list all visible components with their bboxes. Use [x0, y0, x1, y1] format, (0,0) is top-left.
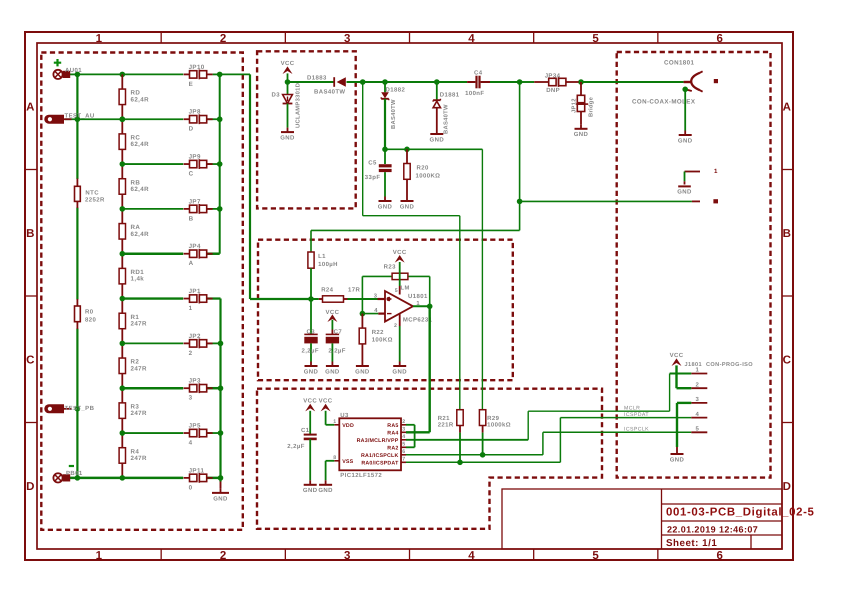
plus mark	[54, 59, 61, 66]
svg-text:GND: GND	[392, 368, 407, 375]
wire MCLR net	[406, 374, 670, 440]
svg-text:33pF: 33pF	[365, 174, 381, 181]
group box connectors	[617, 52, 771, 478]
diode D1881 BAS40TW	[430, 82, 460, 143]
svg-text:JP1: JP1	[189, 288, 201, 295]
jumper JP9 pin C	[184, 153, 213, 177]
svg-text:17R: 17R	[348, 287, 360, 294]
inductor L1 100uH	[308, 252, 338, 299]
IC U3 PIC12LF1572	[333, 412, 406, 479]
wire row 10	[70, 475, 221, 481]
svg-text:1: 1	[189, 305, 193, 312]
svg-text:GND: GND	[280, 135, 295, 142]
svg-text:JP4: JP4	[189, 243, 201, 250]
capacitor C7 2,2uF	[325, 329, 346, 376]
wire AU plus rail	[70, 72, 250, 78]
svg-text:1: 1	[714, 168, 718, 175]
svg-text:A: A	[26, 101, 35, 113]
svg-text:D1882: D1882	[386, 87, 406, 94]
group box sensor inputs	[41, 53, 243, 530]
diode D3 UCLAMP3301D	[272, 82, 302, 142]
svg-text:62,4R: 62,4R	[131, 96, 150, 103]
resistor R2 247R	[119, 358, 147, 374]
svg-text:D: D	[26, 481, 35, 493]
svg-text:62,4R: 62,4R	[131, 186, 150, 193]
svg-text:GND: GND	[677, 188, 692, 195]
svg-text:PB01: PB01	[66, 470, 83, 477]
svg-text:4: 4	[189, 440, 193, 447]
test point TEST_PB	[44, 404, 94, 413]
svg-text:Bridge: Bridge	[588, 96, 595, 117]
capacitor C3 2,2uF	[302, 299, 319, 375]
svg-text:5: 5	[592, 33, 599, 45]
resistor R21 221R	[438, 410, 463, 463]
resistor RD1 1,4k	[119, 268, 144, 284]
svg-text:C7: C7	[334, 329, 343, 336]
svg-text:D1881: D1881	[440, 91, 460, 98]
resistor RA 62,4R	[119, 224, 149, 240]
svg-text:221R: 221R	[438, 421, 454, 428]
wire RA5 RA2 tie	[406, 425, 415, 448]
svg-text:VCC: VCC	[319, 398, 333, 405]
wire row 6	[122, 297, 220, 299]
svg-text:2: 2	[402, 419, 405, 425]
svg-text:A: A	[783, 101, 792, 113]
connector J1801 CON-PROG-ISO	[685, 362, 754, 433]
svg-text:4: 4	[374, 308, 378, 314]
svg-text:ICSPCLK: ICSPCLK	[624, 427, 649, 433]
svg-text:D3: D3	[272, 92, 281, 99]
group box input protection	[257, 51, 356, 208]
svg-text:VCC: VCC	[670, 352, 684, 359]
svg-text:4: 4	[696, 411, 700, 418]
svg-text:7: 7	[402, 457, 405, 463]
svg-text:RA4: RA4	[387, 430, 398, 436]
svg-text:5: 5	[696, 426, 700, 433]
supply VCC opamp	[393, 249, 407, 295]
svg-text:MCLR: MCLR	[624, 406, 640, 412]
svg-text:VCC: VCC	[393, 249, 407, 256]
svg-text:GND: GND	[670, 456, 685, 463]
svg-text:4: 4	[468, 550, 475, 562]
svg-text:RA1/ICSPCLK: RA1/ICSPCLK	[361, 453, 399, 459]
svg-text:2: 2	[220, 550, 227, 562]
svg-text:62,4R: 62,4R	[131, 141, 150, 148]
resistor R4 247R	[119, 448, 147, 464]
svg-text:1000KΩ: 1000KΩ	[416, 172, 441, 179]
wire row 4	[122, 208, 219, 210]
svg-text:D1883: D1883	[307, 74, 327, 81]
svg-text:2: 2	[220, 33, 227, 45]
wire L1 feed	[311, 82, 522, 252]
jumper JP7 pin B	[184, 198, 213, 222]
resistor R23	[384, 264, 408, 280]
jumper JP3 pin 3	[184, 378, 213, 402]
svg-text:PIC12LF1572: PIC12LF1572	[340, 472, 382, 479]
svg-text:D: D	[783, 481, 792, 493]
svg-text:NTC: NTC	[85, 190, 99, 197]
svg-text:1: 1	[96, 550, 103, 562]
wire row 8	[122, 387, 220, 390]
svg-text:UCLAMP3301D: UCLAMP3301D	[295, 83, 302, 128]
svg-text:2,2µF: 2,2µF	[302, 347, 319, 354]
svg-text:R29: R29	[487, 415, 499, 422]
jumper JP4 pin A	[184, 243, 213, 267]
title block	[502, 489, 815, 549]
coax shield ground	[678, 87, 693, 145]
wire main rail	[285, 79, 684, 85]
svg-text:VCC: VCC	[303, 398, 317, 405]
svg-text:247R: 247R	[131, 321, 148, 328]
svg-text:22.01.2019 12:46:07: 22.01.2019 12:46:07	[667, 525, 758, 535]
svg-text:2: 2	[696, 381, 700, 388]
svg-text:MCP6231: MCP6231	[403, 316, 433, 323]
op-amp U1801 MCP6231	[374, 286, 433, 324]
svg-text:GND: GND	[378, 203, 393, 210]
resistor RC 62,4R	[119, 134, 149, 150]
wire opamp output	[413, 304, 433, 433]
svg-text:A: A	[189, 260, 194, 267]
svg-text:R22: R22	[372, 329, 384, 336]
wire feedback	[360, 276, 430, 316]
connector AU01	[53, 67, 82, 79]
jumper JP1 pin 1	[184, 288, 213, 312]
svg-text:GND: GND	[304, 368, 319, 375]
svg-text:C3: C3	[307, 329, 316, 336]
jumper JP8 pin D	[184, 109, 213, 133]
svg-text:247R: 247R	[131, 365, 148, 372]
svg-text:VSS: VSS	[342, 459, 353, 465]
wire RA4 from opamp	[406, 431, 430, 433]
svg-text:B: B	[189, 215, 194, 222]
svg-text:62,4R: 62,4R	[131, 231, 150, 238]
svg-text:6: 6	[717, 33, 724, 45]
svg-text:R20: R20	[417, 165, 429, 172]
svg-text:3: 3	[402, 427, 405, 433]
svg-text:BAS40TW: BAS40TW	[442, 104, 449, 134]
wire row 9	[122, 432, 220, 434]
svg-text:1: 1	[96, 33, 103, 45]
svg-text:GND: GND	[303, 487, 318, 494]
wire clamp node	[382, 147, 482, 240]
svg-text:C: C	[783, 354, 792, 366]
resistor R3 247R	[119, 403, 147, 419]
wire row 3	[122, 163, 219, 165]
ground left box	[212, 478, 229, 502]
svg-text:GND: GND	[318, 487, 333, 494]
svg-text:820: 820	[85, 316, 96, 323]
svg-text:RA0/ICSPDAT: RA0/ICSPDAT	[361, 460, 399, 466]
resistor R0 820	[75, 299, 97, 329]
wire right rail lower	[218, 299, 224, 481]
svg-text:4: 4	[402, 434, 405, 440]
wire J1801 ground	[670, 403, 692, 464]
wire VSS ground	[318, 461, 334, 494]
svg-text:BAS40TW: BAS40TW	[390, 99, 397, 129]
svg-text:LM: LM	[401, 286, 410, 292]
resistor R1 247R	[119, 313, 147, 329]
wire input net	[250, 74, 378, 301]
svg-text:4: 4	[468, 33, 475, 45]
svg-text:GND: GND	[355, 368, 370, 375]
supply VCC top box	[281, 60, 295, 82]
svg-text:JP12: JP12	[571, 98, 578, 113]
supply VCC J1801	[670, 352, 692, 388]
resistor R22 100K	[355, 314, 393, 376]
jumper JP34 DNP	[534, 72, 578, 94]
svg-text:C4: C4	[474, 70, 483, 77]
wire ICSPCLK net	[406, 427, 691, 458]
jumper JP2 pin 2	[184, 333, 213, 357]
capacitor C5 33pF	[365, 149, 393, 210]
svg-text:1000kΩ: 1000kΩ	[487, 421, 511, 428]
svg-text:VCC: VCC	[325, 309, 339, 316]
supply VCC amp C7	[325, 309, 339, 334]
resistor RB 62,4R	[119, 179, 149, 195]
test point TEST_AU	[44, 113, 94, 124]
svg-text:1,4k: 1,4k	[131, 276, 145, 283]
svg-text:DNP: DNP	[546, 87, 560, 94]
svg-text:JP3: JP3	[189, 378, 201, 385]
svg-text:6: 6	[402, 449, 405, 455]
capacitor C1 2,2uF	[287, 427, 317, 494]
svg-text:5: 5	[395, 288, 398, 294]
svg-text:JP8: JP8	[189, 109, 201, 116]
svg-text:GND: GND	[430, 136, 445, 143]
svg-text:JP5: JP5	[189, 422, 201, 429]
resistor R20 1000K	[400, 149, 441, 210]
svg-text:R24: R24	[321, 287, 333, 294]
resistor R24 17R	[321, 287, 360, 303]
svg-text:RA2: RA2	[387, 445, 398, 451]
jumper JP10 pin E	[184, 64, 213, 88]
svg-text:100KΩ: 100KΩ	[372, 337, 393, 344]
diode D1882 BAS40TW	[381, 82, 405, 149]
svg-text:5: 5	[402, 442, 405, 448]
resistor RD 62,4R	[119, 89, 149, 105]
svg-text:100µH: 100µH	[318, 261, 338, 268]
group box amplifier	[258, 240, 513, 381]
svg-text:GND: GND	[574, 131, 589, 138]
svg-text:L1: L1	[318, 253, 326, 260]
svg-text:U3: U3	[340, 412, 349, 419]
svg-text:3: 3	[696, 396, 700, 403]
minus mark	[69, 465, 74, 467]
svg-text:3: 3	[374, 293, 378, 300]
jumper JP5 pin 4	[184, 422, 213, 446]
svg-text:RA3/MCLR/VPP: RA3/MCLR/VPP	[357, 438, 399, 444]
svg-text:R23: R23	[384, 264, 396, 271]
svg-text:C: C	[189, 171, 194, 178]
wire pullup feeds	[363, 82, 460, 410]
svg-text:2,2µF: 2,2µF	[287, 443, 304, 450]
wire left rail	[75, 74, 81, 477]
svg-text:R0: R0	[85, 308, 94, 315]
svg-text:GND: GND	[325, 368, 340, 375]
resistor R29 1000k	[479, 240, 511, 455]
svg-text:C1: C1	[301, 427, 310, 434]
wire coax feed	[520, 200, 692, 202]
svg-text:JP7: JP7	[189, 198, 201, 205]
svg-text:C: C	[26, 354, 35, 366]
thermistor NTC 2252	[75, 179, 105, 209]
svg-text:CON1801: CON1801	[664, 60, 694, 67]
svg-text:TEST_PB: TEST_PB	[65, 405, 95, 412]
svg-text:BAS40TW: BAS40TW	[314, 89, 345, 96]
wire right rail upper	[217, 74, 223, 253]
opamp ground pin 2	[392, 314, 407, 375]
svg-text:JP2: JP2	[189, 333, 201, 340]
svg-text:1: 1	[696, 367, 700, 374]
svg-text:C5: C5	[368, 159, 377, 166]
svg-text:6: 6	[717, 550, 724, 562]
svg-text:247R: 247R	[131, 455, 148, 462]
wire ICSPDAT net	[406, 412, 691, 465]
connector CON1801 coax	[632, 60, 718, 106]
svg-text:2,2µF: 2,2µF	[328, 347, 345, 354]
svg-text:3: 3	[189, 395, 193, 402]
svg-text:JP9: JP9	[189, 153, 201, 160]
supply VCC C1	[303, 398, 317, 434]
svg-text:D: D	[189, 126, 194, 133]
supply VCC VDD	[319, 398, 335, 425]
wire row 5	[122, 252, 219, 255]
svg-text:AU01: AU01	[65, 67, 82, 74]
svg-text:U1801: U1801	[408, 293, 428, 300]
svg-text:3: 3	[344, 33, 351, 45]
svg-text:R21: R21	[438, 415, 450, 422]
diode D1883 BAS40TW	[307, 74, 346, 95]
svg-text:100nF: 100nF	[465, 90, 484, 97]
jumper JP11 pin 0	[184, 467, 213, 491]
jumper JP12 bridge	[571, 82, 595, 138]
svg-text:GND: GND	[678, 137, 693, 144]
svg-text:JP34: JP34	[545, 72, 561, 79]
svg-text:2: 2	[189, 350, 193, 357]
svg-text:5: 5	[592, 550, 599, 562]
svg-text:VCC: VCC	[281, 60, 295, 67]
svg-text:E: E	[189, 81, 194, 88]
connector PB01	[53, 470, 82, 483]
svg-text:3: 3	[344, 550, 351, 562]
svg-text:001-03-PCB_Digital_02-5: 001-03-PCB_Digital_02-5	[666, 507, 815, 519]
svg-text:JP10: JP10	[189, 64, 205, 71]
svg-text:VDD: VDD	[342, 423, 354, 429]
svg-text:JP11: JP11	[189, 467, 205, 474]
svg-text:2252R: 2252R	[85, 197, 105, 204]
group box microcontroller	[257, 389, 602, 529]
coax mount pin 1	[677, 168, 718, 195]
svg-text:B: B	[783, 228, 792, 240]
svg-text:GND: GND	[213, 495, 228, 502]
wire row 7	[122, 342, 220, 344]
wire chain rail	[120, 74, 126, 480]
coax mount pin 2 pad	[692, 199, 718, 203]
capacitor C4 100nF	[465, 70, 490, 98]
svg-text:Sheet: 1/1: Sheet: 1/1	[666, 538, 717, 549]
svg-text:2: 2	[394, 323, 397, 329]
svg-text:0: 0	[189, 484, 193, 491]
wire row D	[65, 116, 220, 122]
svg-text:RA5: RA5	[387, 423, 398, 429]
svg-text:GND: GND	[400, 203, 415, 210]
svg-text:ICSPDAT: ICSPDAT	[624, 412, 649, 418]
svg-text:B: B	[26, 228, 35, 240]
svg-text:TEST_AU: TEST_AU	[65, 113, 95, 120]
svg-text:CON-COAX-MOLEX: CON-COAX-MOLEX	[632, 99, 696, 106]
svg-text:247R: 247R	[131, 410, 148, 417]
